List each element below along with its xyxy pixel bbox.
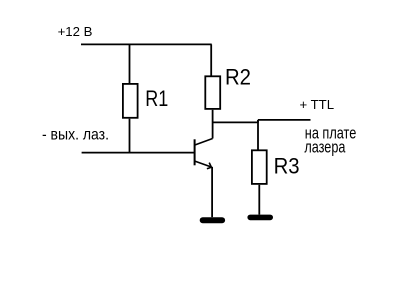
wire R3 top lead [257, 120, 259, 150]
wire R1 top lead [129, 44, 131, 84]
svg-text:R1: R1 [145, 86, 168, 111]
svg-text:+12 В: +12 В [58, 24, 93, 39]
ground emitter [203, 217, 222, 223]
resistor R1 [123, 84, 138, 118]
wire R3 bottom lead [258, 185, 260, 215]
svg-text:R3: R3 [274, 154, 300, 179]
svg-text:лазера: лазера [304, 138, 345, 157]
resistor R2 [205, 76, 220, 109]
wire R1 bottom lead [129, 119, 131, 153]
svg-text:R2: R2 [225, 64, 251, 89]
wire top rail [81, 43, 212, 45]
wire output step [257, 120, 259, 123]
wire output to TTL [258, 119, 311, 121]
wire R2 top lead [210, 44, 212, 76]
wire base input [82, 152, 195, 154]
wire emitter lead [211, 167, 213, 217]
wire collector node to R3 tap [213, 121, 258, 123]
svg-text:+ TTL: + TTL [300, 97, 335, 112]
ground R3 [250, 215, 270, 221]
transistor Q1 [195, 139, 213, 169]
svg-text:- вых. лаз.: - вых. лаз. [42, 126, 109, 143]
resistor R3 [252, 150, 267, 184]
wire collector vertical [212, 110, 214, 139]
